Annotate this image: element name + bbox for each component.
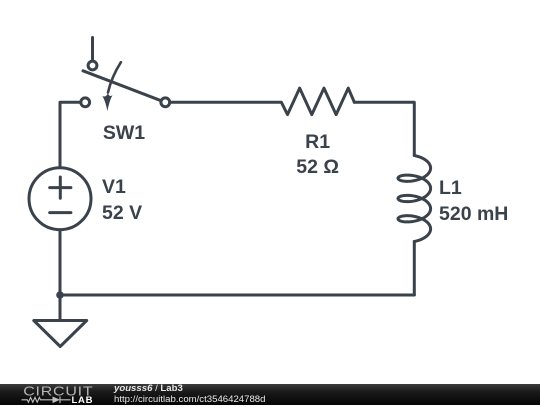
credits text xyxy=(114,384,265,406)
wire from switch left terminal to V1 xyxy=(60,102,81,168)
bottom wire rail xyxy=(60,294,414,297)
wire from L1 bottom to bottom rail xyxy=(413,242,416,296)
wire junction to ground xyxy=(59,295,62,321)
inductor L1 coil xyxy=(398,156,431,242)
label V1 and value xyxy=(102,175,142,226)
logo wire and resistor xyxy=(22,397,53,402)
logo diode xyxy=(53,397,61,404)
voltage source V1 circle xyxy=(29,168,91,230)
svg-text:LAB: LAB xyxy=(72,395,94,405)
label SW1 xyxy=(103,121,145,147)
switch SW1 top terminal xyxy=(88,61,97,70)
switch SW1 actuation arrow xyxy=(108,62,121,92)
footer bar xyxy=(0,384,540,405)
switch SW1 left terminal xyxy=(81,98,90,107)
wire from R1 to top-right corner and down to L1 xyxy=(354,102,414,155)
logo word CIRCUIT xyxy=(23,385,93,399)
label R1 and value xyxy=(296,130,339,181)
wire switch blade xyxy=(83,71,165,103)
wire from switch right terminal to R1 xyxy=(170,101,281,104)
resistor R1 zigzag xyxy=(281,88,354,115)
CircuitLab logo xyxy=(0,384,110,405)
V1 minus sign xyxy=(50,211,71,214)
junction node dot xyxy=(56,291,64,299)
wire switch top stub xyxy=(91,38,94,66)
switch SW1 right terminal xyxy=(161,98,170,107)
ground symbol triangle xyxy=(34,321,87,347)
wire V1 bottom to junction xyxy=(59,230,62,295)
V1 plus sign xyxy=(50,177,71,198)
label L1 and value xyxy=(439,176,508,227)
